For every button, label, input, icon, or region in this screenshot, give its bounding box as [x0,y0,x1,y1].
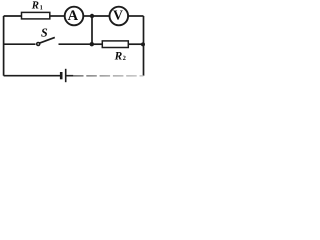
svg-text:2: 2 [123,55,126,62]
voltmeter V [110,7,129,26]
wire: ammeter to node [83,15,92,17]
svg-text:S: S [41,25,48,39]
svg-text:R: R [31,0,39,12]
wire: bottom left to battery [4,75,61,77]
svg-text:R: R [114,50,123,62]
node dot top [90,14,94,18]
svg-text:A: A [68,8,79,24]
svg-text:1: 1 [40,4,43,11]
battery positive plate (long thin) [65,69,67,82]
wire: node drop to middle row [91,16,93,44]
wire: R1 to ammeter [50,15,65,17]
resistor R1 [22,12,50,19]
wire: switch to middle node [59,43,92,45]
wire: top from left corner to R1 [4,15,22,17]
switch S pivot [37,43,40,46]
ammeter A [65,7,84,26]
wire: middle left to switch [4,43,36,45]
svg-text:V: V [113,8,123,23]
wire: right vertical [143,16,145,76]
wire: voltmeter to right corner [128,15,143,17]
wire: node to R2 [92,43,103,45]
switch S blade [39,37,55,43]
wire: node to voltmeter [92,15,110,17]
node dot right [141,42,145,46]
resistor R2 [102,41,128,48]
node dot middle [90,42,94,46]
wire: R2 to right edge [128,43,143,45]
wire: bottom dashed segment to right corner [73,75,144,77]
wire: battery to dashes (solid stub) [66,75,74,77]
battery negative plate (short thick) [60,72,63,79]
wire: left vertical [3,16,5,76]
